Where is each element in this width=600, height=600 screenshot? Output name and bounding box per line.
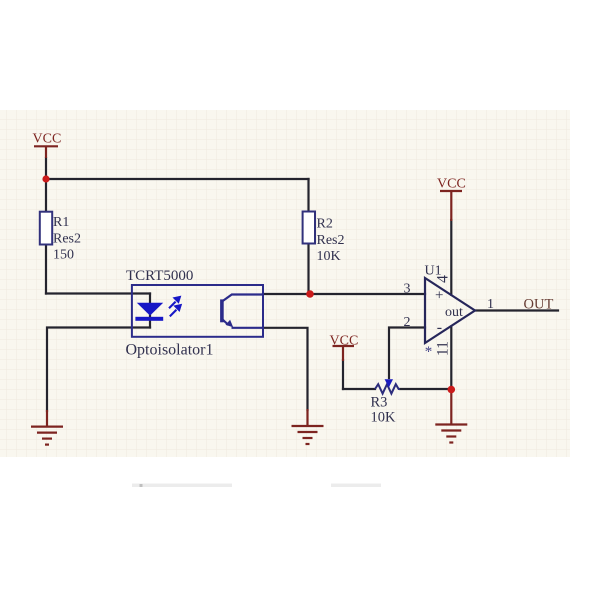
svg-text:out: out	[445, 305, 463, 320]
svg-text:2: 2	[404, 315, 411, 330]
svg-text:10K: 10K	[317, 249, 341, 264]
svg-text:R3: R3	[371, 395, 388, 411]
svg-text:Res2: Res2	[53, 232, 81, 247]
svg-text:R2: R2	[317, 217, 333, 232]
svg-text:OUT: OUT	[524, 297, 554, 313]
svg-text:VCC: VCC	[437, 177, 466, 192]
svg-text:+: +	[435, 288, 443, 304]
svg-text:Res2: Res2	[317, 233, 345, 248]
svg-text:*: *	[425, 344, 433, 360]
svg-text:TCRT5000: TCRT5000	[126, 268, 193, 284]
svg-text:R1: R1	[53, 215, 69, 230]
svg-text:3: 3	[404, 282, 411, 297]
svg-text:VCC: VCC	[33, 132, 62, 147]
svg-text:4: 4	[435, 275, 452, 283]
svg-text:1: 1	[487, 297, 494, 312]
svg-text:-: -	[437, 319, 442, 336]
svg-text:10K: 10K	[371, 410, 397, 426]
svg-text:150: 150	[53, 248, 74, 263]
svg-text:Optoisolator1: Optoisolator1	[126, 342, 214, 359]
svg-text:VCC: VCC	[330, 333, 359, 348]
svg-text:11: 11	[434, 341, 451, 356]
